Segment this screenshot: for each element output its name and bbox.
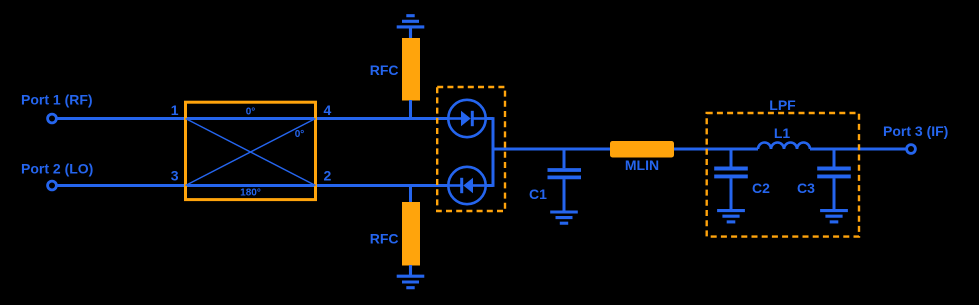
wire RFC1 to top net <box>409 100 412 119</box>
wire port1 to diode D1 (top net) <box>57 117 449 120</box>
microstrip MLIN <box>610 141 674 158</box>
ground for C1 <box>550 212 578 223</box>
inductor RFC (bottom choke) <box>402 202 420 266</box>
svg-text:Port 3 (IF): Port 3 (IF) <box>883 123 948 139</box>
svg-text:0°: 0° <box>246 107 256 118</box>
svg-text:0°: 0° <box>295 129 305 140</box>
wire IF net: coil L1 to port 3 <box>810 148 906 151</box>
svg-text:180°: 180° <box>240 188 261 199</box>
svg-text:L1: L1 <box>774 125 791 141</box>
diode D1 (top) <box>448 100 485 137</box>
ground for RFC2 <box>397 265 425 288</box>
wire IF net: bus to coil L1 <box>493 148 758 151</box>
svg-text:C1: C1 <box>529 186 547 202</box>
capacitor C1 <box>548 149 582 212</box>
ground for C3 <box>820 211 848 222</box>
hybrid coupler box <box>186 102 316 199</box>
capacitor C2 <box>714 149 748 211</box>
wire port2 to diode D2 (bottom net) <box>57 184 449 187</box>
wire RFC2 to bottom net <box>409 186 412 203</box>
svg-text:C2: C2 <box>752 180 770 196</box>
wire diode outputs bus <box>486 117 493 187</box>
svg-text:C3: C3 <box>797 180 815 196</box>
diode D2 (bottom) <box>448 167 485 204</box>
svg-text:2: 2 <box>324 168 332 184</box>
ground (top, flipped) for RFC1 <box>397 16 425 39</box>
diode pair dashed box <box>437 87 505 211</box>
port P1 terminal (Port 1 RF) <box>48 114 57 123</box>
inductor RFC (top choke) <box>402 38 420 101</box>
LPF dashed box <box>707 113 859 237</box>
capacitor C3 <box>817 149 851 211</box>
svg-text:RFC: RFC <box>370 62 399 78</box>
svg-text:MLIN: MLIN <box>625 157 659 173</box>
svg-text:4: 4 <box>324 102 332 118</box>
svg-text:RFC: RFC <box>370 231 399 247</box>
coupler diagonal 1-2 <box>186 119 316 186</box>
port P2 terminal (Port 2 LO) <box>48 181 57 190</box>
ground for C2 <box>717 211 745 222</box>
svg-text:3: 3 <box>171 168 179 184</box>
svg-text:Port 2 (LO): Port 2 (LO) <box>21 161 93 177</box>
svg-text:1: 1 <box>171 102 179 118</box>
port P3 terminal (Port 3 IF) <box>907 145 916 154</box>
svg-text:LPF: LPF <box>769 97 796 113</box>
coupler diagonal 3-4 <box>186 119 316 186</box>
inductor L1 coil <box>758 143 810 149</box>
svg-text:Port 1 (RF): Port 1 (RF) <box>21 91 93 107</box>
